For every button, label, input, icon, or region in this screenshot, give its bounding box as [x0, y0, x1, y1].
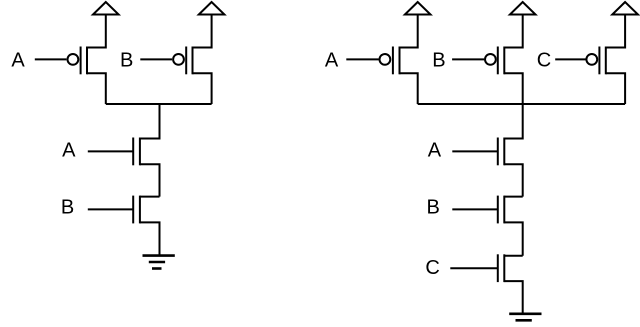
node A label (right PMOS A input): [325, 49, 339, 71]
svg-text:A: A: [62, 140, 76, 162]
wire: right NMOS MN3 gate input: [452, 150, 498, 152]
wire: MP3 drain lead down to output bus: [400, 73, 418, 104]
svg-text:C: C: [425, 257, 439, 279]
nmos MN5 channel bar: [503, 254, 505, 282]
wire: left PMOS A gate input: [35, 58, 67, 60]
nmos MN1 channel bar: [139, 138, 141, 166]
pmos MP2 channel bar: [192, 47, 194, 75]
wire: MP4 drain lead down through bus to NMOS MN3 drain: [504, 73, 522, 138]
ground (left NAND2): [143, 256, 175, 269]
vdd symbol VDD1 (left NAND2, over PMOS A): [93, 2, 119, 15]
pmos MP4 gate bar: [497, 47, 499, 75]
pmos MP1 gate bar: [80, 47, 82, 75]
node C label (right NMOS MN5 input): [425, 257, 439, 279]
pmos MP5 gate bubble: [586, 54, 597, 65]
wire: left NAND2 output bus: [106, 103, 212, 105]
wire: right PMOS C gate input: [555, 58, 585, 60]
vdd symbol VDD3 (right NAND3, over PMOS A): [405, 2, 431, 15]
vdd symbol VDD4 (right NAND3, over PMOS B): [510, 2, 536, 15]
wire: output tap down to NMOS MN1 drain: [140, 104, 160, 139]
nmos MN2 channel bar: [139, 196, 141, 224]
pmos MP1 gate bubble: [68, 54, 79, 65]
wire: left NMOS MN1 gate input: [88, 150, 133, 152]
svg-text:B: B: [61, 197, 74, 219]
pmos MP2 gate bubble: [173, 54, 184, 65]
wire: right PMOS A gate input: [346, 58, 378, 60]
node C label (right PMOS C input): [537, 50, 551, 72]
wire: MN4 drain lead: [504, 196, 522, 198]
wire: left PMOS B gate input: [140, 58, 172, 60]
wire: right NMOS MN5 gate input: [450, 267, 498, 269]
wire: MN5 drain lead: [504, 255, 522, 257]
wire: MP1 drain lead down to output bus: [87, 73, 106, 104]
pmos MP2 gate bar: [185, 47, 187, 75]
wire: MP4 source lead up to VDD4: [504, 15, 522, 48]
svg-text:A: A: [428, 140, 442, 162]
pmos MP4 channel bar: [503, 47, 505, 75]
wire: MN3 source lead down to MN4 drain: [504, 164, 522, 196]
node B label (left NMOS MN2 input): [61, 197, 74, 219]
wire: right NAND3 output bus: [418, 103, 625, 105]
wire: MN2 drain lead: [140, 196, 160, 198]
nmos MN3 channel bar: [503, 138, 505, 166]
node A label (right NMOS MN3 input): [428, 140, 442, 162]
ground (right NAND3): [509, 314, 541, 327]
pmos MP1 channel bar: [86, 47, 88, 75]
nmos MN4 channel bar: [503, 196, 505, 224]
pmos MP3 gate bubble: [380, 54, 391, 65]
pmos MP3 channel bar: [399, 47, 401, 75]
nmos MN1 gate bar: [132, 138, 134, 166]
svg-text:B: B: [427, 197, 440, 219]
svg-text:B: B: [432, 50, 445, 72]
pmos MP5 gate bar: [598, 47, 600, 75]
wire: MP2 source lead up to VDD2: [193, 15, 212, 48]
pmos MP4 gate bubble: [485, 54, 496, 65]
node B label (right PMOS B input): [432, 50, 445, 72]
node A label (left PMOS A input): [11, 50, 25, 72]
node A label (left NMOS MN1 input): [62, 140, 76, 162]
svg-text:C: C: [537, 50, 551, 72]
wire: MP3 source lead up to VDD3: [400, 15, 418, 48]
svg-text:A: A: [11, 50, 25, 72]
node B label (right NMOS MN4 input): [427, 197, 440, 219]
wire: MN2 source lead down to ground: [140, 222, 160, 255]
wire: MP2 drain lead down to output bus: [193, 73, 212, 104]
nmos MN5 gate bar: [497, 254, 499, 282]
wire: right NMOS MN4 gate input: [452, 208, 498, 210]
nmos MN2 gate bar: [132, 196, 134, 224]
wire: MP1 source lead up to VDD1: [87, 15, 106, 48]
wire: left NMOS MN2 gate input: [88, 208, 133, 210]
node B label (left PMOS B input): [120, 50, 133, 72]
nmos MN3 gate bar: [497, 138, 499, 166]
wire: MN5 source lead down to ground: [504, 281, 522, 314]
svg-text:B: B: [120, 50, 133, 72]
pmos MP5 channel bar: [605, 47, 607, 75]
vdd symbol VDD5 (right NAND3, over PMOS C): [612, 2, 638, 15]
pmos MP3 gate bar: [392, 47, 394, 75]
wire: MP5 drain lead down to output bus: [606, 73, 625, 104]
wire: right PMOS B gate input: [452, 58, 484, 60]
wire: MP5 source lead up to VDD5: [606, 15, 625, 48]
wire: MN1 source lead down to MN2 drain: [140, 164, 160, 196]
nmos MN4 gate bar: [497, 196, 499, 224]
wire: MN4 source lead down to MN5 drain: [504, 222, 522, 255]
svg-text:A: A: [325, 49, 339, 71]
vdd symbol VDD2 (left NAND2, over PMOS B): [199, 2, 225, 15]
